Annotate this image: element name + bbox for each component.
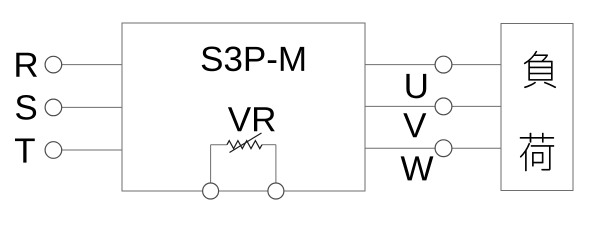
terminal T [45,142,62,159]
controller box U1 (S3P-M) [122,23,365,191]
wire W output [365,147,501,149]
label S3P-M [202,46,305,71]
label T [15,139,35,163]
label W [401,156,434,180]
terminal S [45,99,62,116]
terminal W [435,140,452,157]
variable resistor VR zigzag [227,141,262,149]
wire V output [365,105,501,107]
wire T input [62,149,122,151]
terminal VR left (on box bottom edge) [203,183,219,199]
wire VR top right segment [262,144,276,146]
variable resistor VR arrow (diagonal) [230,133,262,153]
kanji 負 (load, first char) [524,51,556,88]
wire S input [62,106,122,108]
label U [406,74,426,98]
terminal V [435,98,452,115]
load box [501,24,573,191]
label VR [228,107,275,131]
wire U output [365,64,501,66]
terminal VR right (on box bottom edge) [268,183,284,199]
wire VR right vertical [275,145,277,185]
label S [16,95,36,120]
label R [16,53,37,77]
terminal U [435,56,452,73]
label V [403,113,426,137]
wire R input [62,64,122,66]
kanji 荷 (load, second char) [520,133,554,171]
wire VR top left segment [211,144,227,146]
terminal R [45,56,62,73]
wire VR left vertical [210,145,212,185]
